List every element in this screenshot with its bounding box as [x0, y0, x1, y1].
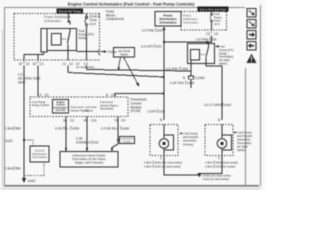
svg-text:0.5 DK BLU: 0.5 DK BLU	[101, 126, 119, 130]
relay label Fuel Pump (FP) Relay	[79, 29, 94, 40]
svg-text:C2: C2	[70, 118, 74, 122]
label 0.8 PNK 339	[196, 37, 216, 41]
small ref box right of DK BLU wire	[120, 137, 135, 144]
svg-text:Gages, and Console): Gages, and Console)	[75, 161, 103, 165]
svg-text:B7: B7	[33, 62, 37, 66]
dot on wire	[117, 139, 119, 141]
ground distribution schematics box	[30, 146, 49, 162]
svg-text:120: 120	[156, 45, 162, 49]
label 0.8 LT GRN 1000	[204, 103, 231, 107]
node S102	[5, 139, 25, 143]
secondary pump label	[233, 131, 252, 153]
svg-text:C9: C9	[121, 118, 125, 122]
PCM internal ref box	[53, 100, 69, 114]
relay coil	[52, 34, 62, 46]
wire fuse output horizontal upper (TAN feed)	[87, 66, 192, 76]
callout arrow 1	[118, 57, 121, 71]
svg-text:C3: C3	[206, 32, 210, 36]
wire PPL down	[65, 117, 68, 152]
terminal C primary	[160, 156, 163, 160]
banner Hot At All Times	[57, 9, 84, 14]
label 2 BLK 350	[5, 166, 21, 170]
wire dashed to ground distribution box	[25, 140, 33, 146]
svg-text:B: B	[218, 118, 220, 122]
instrument panel cluster box	[60, 152, 118, 168]
svg-text:2 BLK: 2 BLK	[5, 167, 15, 171]
svg-text:B: B	[106, 93, 108, 97]
svg-text:0.5 PNK: 0.5 PNK	[142, 29, 155, 33]
fuse ECM B	[85, 14, 88, 61]
power distribution ref box (center top)	[155, 12, 181, 27]
relay switch secondary	[206, 44, 209, 64]
svg-text:3A: 3A	[63, 118, 68, 122]
relay coil-switch dashed link	[61, 38, 69, 40]
wire TAN below connector	[190, 79, 192, 88]
svg-text:0.8 LT GRN: 0.8 LT GRN	[204, 103, 222, 107]
node junction PNK/GRY	[163, 41, 165, 43]
motor M secondary	[217, 125, 231, 158]
connector C133A inline	[189, 76, 194, 79]
wire GRN/BLK down	[86, 117, 89, 152]
svg-text:0.5 TAN: 0.5 TAN	[166, 67, 178, 71]
terminal B C9 top	[106, 93, 115, 97]
fuse label ECM B Fuse 10 A	[90, 15, 101, 26]
icon diagonal arrow 2	[247, 20, 256, 29]
primary pump dashed box	[150, 125, 178, 156]
svg-text:1 BLK: 1 BLK	[5, 127, 15, 131]
wire PCM tap to GRY	[115, 94, 164, 98]
wire relay coil to left terminals	[24, 52, 44, 60]
label Fuse Block - Underhood (left)	[106, 10, 124, 22]
terminal labels fuse block bottom	[19, 62, 94, 70]
banner Hot In Run Bulb Test And Start	[198, 7, 229, 12]
svg-text:C: C	[160, 156, 163, 160]
svg-text:0.8 GRY: 0.8 GRY	[141, 45, 154, 49]
wire relay top pin to PNK wire	[208, 42, 210, 44]
svg-text:1465: 1465	[181, 67, 189, 71]
page border frame	[3, 5, 261, 186]
labels 1 BLK primary	[144, 160, 182, 164]
PCM internal text low fuel	[85, 105, 97, 112]
svg-text:C: C	[218, 156, 221, 160]
wire prime connector	[77, 50, 108, 54]
wire primary pump ground	[164, 156, 199, 176]
fuse block underhood (left) dashed box	[14, 14, 100, 61]
svg-text:(w/ dual tanks): (w/ dual tanks)	[76, 65, 94, 69]
svg-text:C133A: C133A	[195, 76, 206, 80]
svg-text:Underhood: Underhood	[106, 17, 124, 21]
svg-text:C2: C2	[45, 93, 49, 97]
svg-text:GRN/BLK: GRN/BLK	[76, 140, 91, 144]
relay coil secondary	[191, 50, 200, 61]
svg-text:Tanks: Tanks	[120, 52, 129, 56]
svg-text:C5: C5	[214, 32, 218, 36]
svg-text:#1: #1	[63, 62, 67, 66]
wire banner to relay	[69, 14, 71, 25]
wire secondary pump ground	[200, 156, 223, 174]
svg-text:1 BLK: 1 BLK	[205, 164, 213, 168]
wire GRY vertical to primary pump	[163, 42, 165, 120]
wire relay secondary output to LT GRN	[206, 64, 222, 121]
terminal A C2	[40, 93, 49, 97]
svg-text:C2: C2	[26, 62, 30, 66]
ground G402	[25, 163, 44, 176]
svg-text:10 A: 10 A	[90, 22, 97, 26]
svg-text:Schematics: Schematics	[183, 21, 198, 25]
wire relay switch output down	[67, 51, 69, 61]
relay coil-switch dashed link	[200, 54, 207, 56]
svg-text:1050: 1050	[72, 126, 80, 130]
svg-text:1 GRY: 1 GRY	[147, 110, 158, 114]
label 0.35 GRN/BLK 819	[76, 136, 98, 144]
svg-text:Relay: Relay	[79, 36, 88, 40]
callout arrow 2	[124, 57, 140, 87]
wire DK GRN/WHT to PCM	[37, 66, 39, 97]
svg-text:Primary: Primary	[183, 142, 194, 146]
wire arrow up into ref box	[163, 26, 166, 42]
svg-text:Hot At All Times: Hot At All Times	[58, 10, 81, 14]
ref text power distribution schematics (right)	[183, 14, 198, 25]
label 0.5 PNK 339	[142, 28, 162, 32]
svg-text:G402: G402	[28, 179, 36, 183]
PCM internal text secondary	[100, 100, 119, 110]
node	[206, 41, 208, 43]
relay label secondary	[215, 45, 234, 66]
terminal B secondary	[218, 118, 220, 122]
svg-text:C2: C2	[40, 62, 44, 66]
svg-text:819: 819	[93, 140, 99, 144]
label 0.35 PPL 1050	[55, 126, 79, 130]
svg-text:(PCM): (PCM)	[131, 109, 141, 113]
svg-text:Cluster: Cluster	[123, 141, 131, 144]
ground G408/G110	[197, 173, 231, 181]
node junction dot	[68, 21, 70, 23]
svg-text:Schematics: Schematics	[32, 155, 47, 159]
svg-text:465: 465	[35, 77, 41, 81]
wire relay coil pin to TAN	[190, 60, 192, 71]
svg-text:0.35 PPL: 0.35 PPL	[55, 126, 69, 130]
relay R1 terminal block	[41, 29, 47, 53]
relay FP primary box	[47, 29, 77, 51]
wire BLK ground chain left	[23, 66, 25, 176]
svg-text:Schematics: Schematics	[159, 20, 176, 24]
wire switch output horizontal lower (GRY feed)	[68, 66, 164, 78]
node junction GRY	[162, 76, 164, 78]
svg-text:B: B	[160, 118, 162, 122]
relay switch	[68, 29, 71, 51]
svg-text:B7: B7	[19, 62, 23, 66]
terminal C secondary	[218, 156, 221, 160]
svg-text:(Cell 20): (Cell 20)	[56, 109, 66, 112]
PCM bottom terminals	[63, 118, 125, 122]
node	[162, 92, 164, 94]
terminal B primary	[160, 118, 162, 122]
svg-text:tanks): tanks)	[219, 62, 227, 66]
svg-text:S102: S102	[5, 139, 13, 143]
relay FP secondary box	[188, 44, 215, 64]
svg-text:0.8 PNK: 0.8 PNK	[196, 38, 209, 42]
callout w/o Dual Tanks	[114, 48, 135, 58]
label 0.5 DK BLU 1668	[101, 126, 129, 130]
label 1 GRY 120	[147, 109, 164, 113]
svg-text:Prime: Prime	[108, 50, 117, 54]
svg-text:G110 (w/ dual tanks): G110 (w/ dual tanks)	[203, 177, 229, 181]
PCM internal text fuel level	[71, 105, 89, 112]
label 1 BLK 300	[5, 126, 21, 130]
svg-text:339: 339	[211, 38, 217, 42]
svg-text:Secondary: Secondary	[100, 107, 114, 111]
svg-text:1 BLK: 1 BLK	[144, 164, 152, 168]
labels 1 BLK secondary	[205, 160, 238, 164]
wire DK BLU down	[111, 117, 118, 152]
fuse Fuel Pump 20 A	[210, 12, 212, 31]
title	[68, 1, 195, 6]
svg-text:WHT: WHT	[18, 81, 26, 85]
svg-text:0.35 TAN: 0.35 TAN	[170, 81, 184, 85]
motor M primary	[159, 125, 173, 158]
icon warning triangle	[247, 54, 257, 64]
ref text Power Distribution Schematics	[44, 15, 71, 23]
svg-text:Hot In Run And Start: Hot In Run And Start	[200, 8, 227, 12]
label 0.5 TAN 1465	[166, 67, 188, 71]
svg-text:2150 (w/ tanks): 2150 (w/ tanks)	[215, 164, 235, 168]
label 0.35 TAN 1465	[170, 81, 194, 85]
svg-text:C2: C2	[69, 62, 73, 66]
label Prime	[108, 50, 117, 54]
svg-text:1668: 1668	[122, 126, 130, 130]
svg-text:B: B	[183, 76, 185, 80]
svg-text:300: 300	[15, 127, 21, 131]
fuse block underhood (right) dashed box	[181, 12, 227, 31]
svg-text:1000: 1000	[224, 103, 232, 107]
svg-text:120: 120	[159, 110, 165, 114]
secondary pump dashed box	[205, 125, 233, 156]
label 0.8 GRY 120	[141, 44, 161, 48]
PCM label	[131, 98, 147, 114]
svg-text:Relay Control: Relay Control	[32, 103, 49, 107]
svg-text:Schematics: Schematics	[44, 19, 61, 23]
svg-text:C11: C11	[91, 118, 97, 122]
svg-text:2150 (w/ dual tanks): 2150 (w/ dual tanks)	[154, 164, 180, 168]
svg-text:350: 350	[15, 167, 21, 171]
primary pump label	[179, 132, 198, 147]
icon diagonal arrow 1	[247, 9, 256, 18]
PCM dashed box	[30, 97, 128, 117]
terminal C3 C5	[206, 32, 218, 36]
icon right arrow	[247, 31, 256, 40]
PCM internal text left	[32, 100, 49, 107]
svg-text:A: A	[40, 93, 43, 97]
svg-text:20 A: 20 A	[214, 22, 220, 26]
svg-text:73: 73	[114, 118, 118, 122]
wire PNK from fuse to junction	[164, 36, 212, 43]
label 0.5 DK GRN/WHT 465	[18, 73, 40, 85]
svg-text:tanks): tanks)	[237, 148, 245, 152]
icon left arrow	[247, 42, 256, 51]
svg-text:Engine Control Schematics (Fue: Engine Control Schematics (Fuel Control …	[68, 1, 195, 6]
svg-text:339: 339	[157, 29, 163, 33]
svg-text:Signal: Signal	[85, 108, 93, 112]
